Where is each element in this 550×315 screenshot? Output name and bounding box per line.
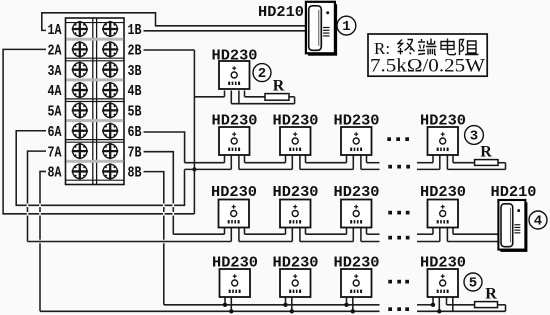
branch 4 ellipsis dots mid [388, 211, 409, 215]
terminal 3B screw [102, 62, 118, 78]
CJK zu (resist) [460, 40, 479, 56]
branch 4 upper bus segments [173, 233, 498, 235]
branch 4 ellipsis dots bus [388, 236, 409, 240]
HD230 unit 3-2 [280, 127, 311, 155]
terminal 8A screw [72, 163, 88, 179]
circled 2 [253, 64, 271, 83]
svg-text:5A: 5A [48, 104, 62, 121]
HD230 unit 5-2 [280, 269, 311, 297]
branch 5 lower bus [40, 310, 506, 312]
svg-text:HD210: HD210 [491, 184, 537, 201]
resistor R3 [475, 160, 498, 166]
branch 3 lower bus segments [185, 168, 506, 170]
svg-text:3A: 3A [48, 63, 62, 80]
branch 3 ellipsis dots bus [388, 165, 410, 169]
branch 2 wiring [194, 91, 294, 104]
CJK dian (electric) [441, 39, 456, 55]
svg-text:8B: 8B [128, 165, 142, 182]
wire 2B to common riser [144, 49, 195, 51]
terminal 7A screw [72, 143, 88, 159]
terminal labels 1B-8B [128, 22, 142, 181]
svg-text:8A: 8A [48, 165, 62, 182]
svg-text:1B: 1B [128, 22, 142, 39]
CJK duan [418, 39, 437, 56]
terminal 2A screw [72, 41, 88, 57]
terminal 3A screw [72, 62, 88, 78]
svg-text:2: 2 [258, 66, 266, 82]
HD230 unit 3-4 [428, 127, 459, 155]
svg-text:5B: 5B [128, 104, 142, 121]
HD230 unit 5-3 [341, 269, 372, 297]
svg-text:R: R [480, 144, 492, 161]
wire 1B to HD210 U1 [144, 30, 306, 32]
wire 2A down left side to common riser [3, 49, 194, 213]
resistor R5 [475, 302, 498, 308]
wire 7B to branch 4 upper bus [144, 152, 174, 235]
terminal 4A screw [72, 82, 88, 98]
svg-text:1A: 1A [48, 22, 62, 39]
HD230 unit 5-4 [428, 269, 459, 297]
svg-text:4: 4 [534, 214, 542, 230]
svg-text:6A: 6A [48, 124, 62, 141]
svg-text:3B: 3B [128, 63, 142, 80]
svg-text:2B: 2B [128, 43, 142, 60]
terminal 6B screw [102, 123, 118, 139]
terminal 7B screw [102, 143, 118, 159]
branch 3 unit pins [225, 155, 454, 169]
HD230 unit 2 [219, 61, 250, 89]
HD230 unit 5-1 [220, 269, 251, 297]
svg-text:6B: 6B [128, 124, 142, 141]
terminal 4B screw [102, 82, 118, 98]
branch 5 ellipsis dots bus [388, 307, 409, 311]
HD230 unit 4-1 [219, 200, 250, 228]
wire 8A to branch 5 lower bus [40, 171, 46, 311]
branch 4 unit pins [225, 228, 454, 242]
terminal 5A screw [72, 102, 88, 118]
crossing gaps on non-connected wires [28, 163, 197, 244]
svg-text:7A: 7A [48, 144, 62, 161]
svg-text:5: 5 [469, 276, 477, 292]
resistor R2 [265, 94, 289, 101]
svg-text:HD230: HD230 [334, 184, 380, 201]
svg-text:4A: 4A [48, 83, 62, 100]
svg-text:7B: 7B [128, 144, 142, 161]
HD230 unit 4-3 [341, 200, 372, 228]
wire 7A to branch 4 lower bus [28, 151, 47, 241]
HD210 U1 device [306, 2, 337, 56]
terminal 1B screw [102, 21, 118, 37]
HD230 unit 3-3 [341, 127, 372, 155]
HD230 unit 4-2 [280, 200, 311, 228]
terminal block TB1 housing [66, 18, 125, 185]
branch 5 unit taps [225, 298, 453, 312]
wire 1A to HD210 U1 [42, 13, 306, 31]
svg-text:HD230: HD230 [211, 184, 257, 201]
terminal block row separators [66, 38, 125, 163]
HD210 U4 device [498, 200, 527, 252]
common riser wire [193, 50, 195, 214]
svg-text:1: 1 [342, 19, 350, 35]
terminal 1A screw [72, 21, 88, 37]
circled 3 [465, 126, 484, 145]
svg-text:HD230: HD230 [273, 184, 319, 201]
branch 3 ellipsis dots mid [387, 137, 409, 141]
circled 4 [529, 211, 547, 230]
terminal 2B screw [102, 41, 118, 57]
svg-text:4B: 4B [128, 83, 142, 100]
CJK zhong (end) [398, 40, 415, 55]
svg-text:7.5kΩ/0.25W: 7.5kΩ/0.25W [370, 56, 485, 77]
wire 6A to branch 3 lower bus riser [16, 131, 184, 206]
circled 1 [337, 16, 356, 35]
junction dot on branch 3 lower bus [192, 167, 196, 171]
terminal 8B screw [102, 163, 118, 179]
svg-text:R: R [485, 286, 497, 303]
terminal 5B screw [102, 102, 118, 118]
svg-text:HD230: HD230 [420, 184, 466, 201]
terminal 6A screw [72, 123, 88, 139]
HD230 unit 3-1 [219, 127, 250, 155]
svg-text:R: R [273, 78, 285, 95]
branch 4 lower bus segments [28, 241, 499, 243]
branch 5 junction dots [223, 303, 442, 314]
wire 8B to branch 5 upper bus [144, 172, 164, 305]
svg-text:3: 3 [470, 129, 478, 145]
svg-text:2A: 2A [48, 43, 62, 60]
branch 5 upper bus [164, 305, 506, 312]
circled 5 [464, 273, 482, 292]
branch 5 ellipsis dots mid [388, 280, 409, 284]
branch 3 upper bus segments [185, 163, 506, 170]
note box: R terminal resistor 7.5k/0.25W [368, 34, 487, 77]
svg-text:HD210: HD210 [258, 4, 304, 21]
HD230 unit 4-4 [428, 200, 459, 228]
terminal labels 1A-8A [48, 22, 62, 181]
wire 6B to branch 3 upper bus [144, 132, 185, 163]
